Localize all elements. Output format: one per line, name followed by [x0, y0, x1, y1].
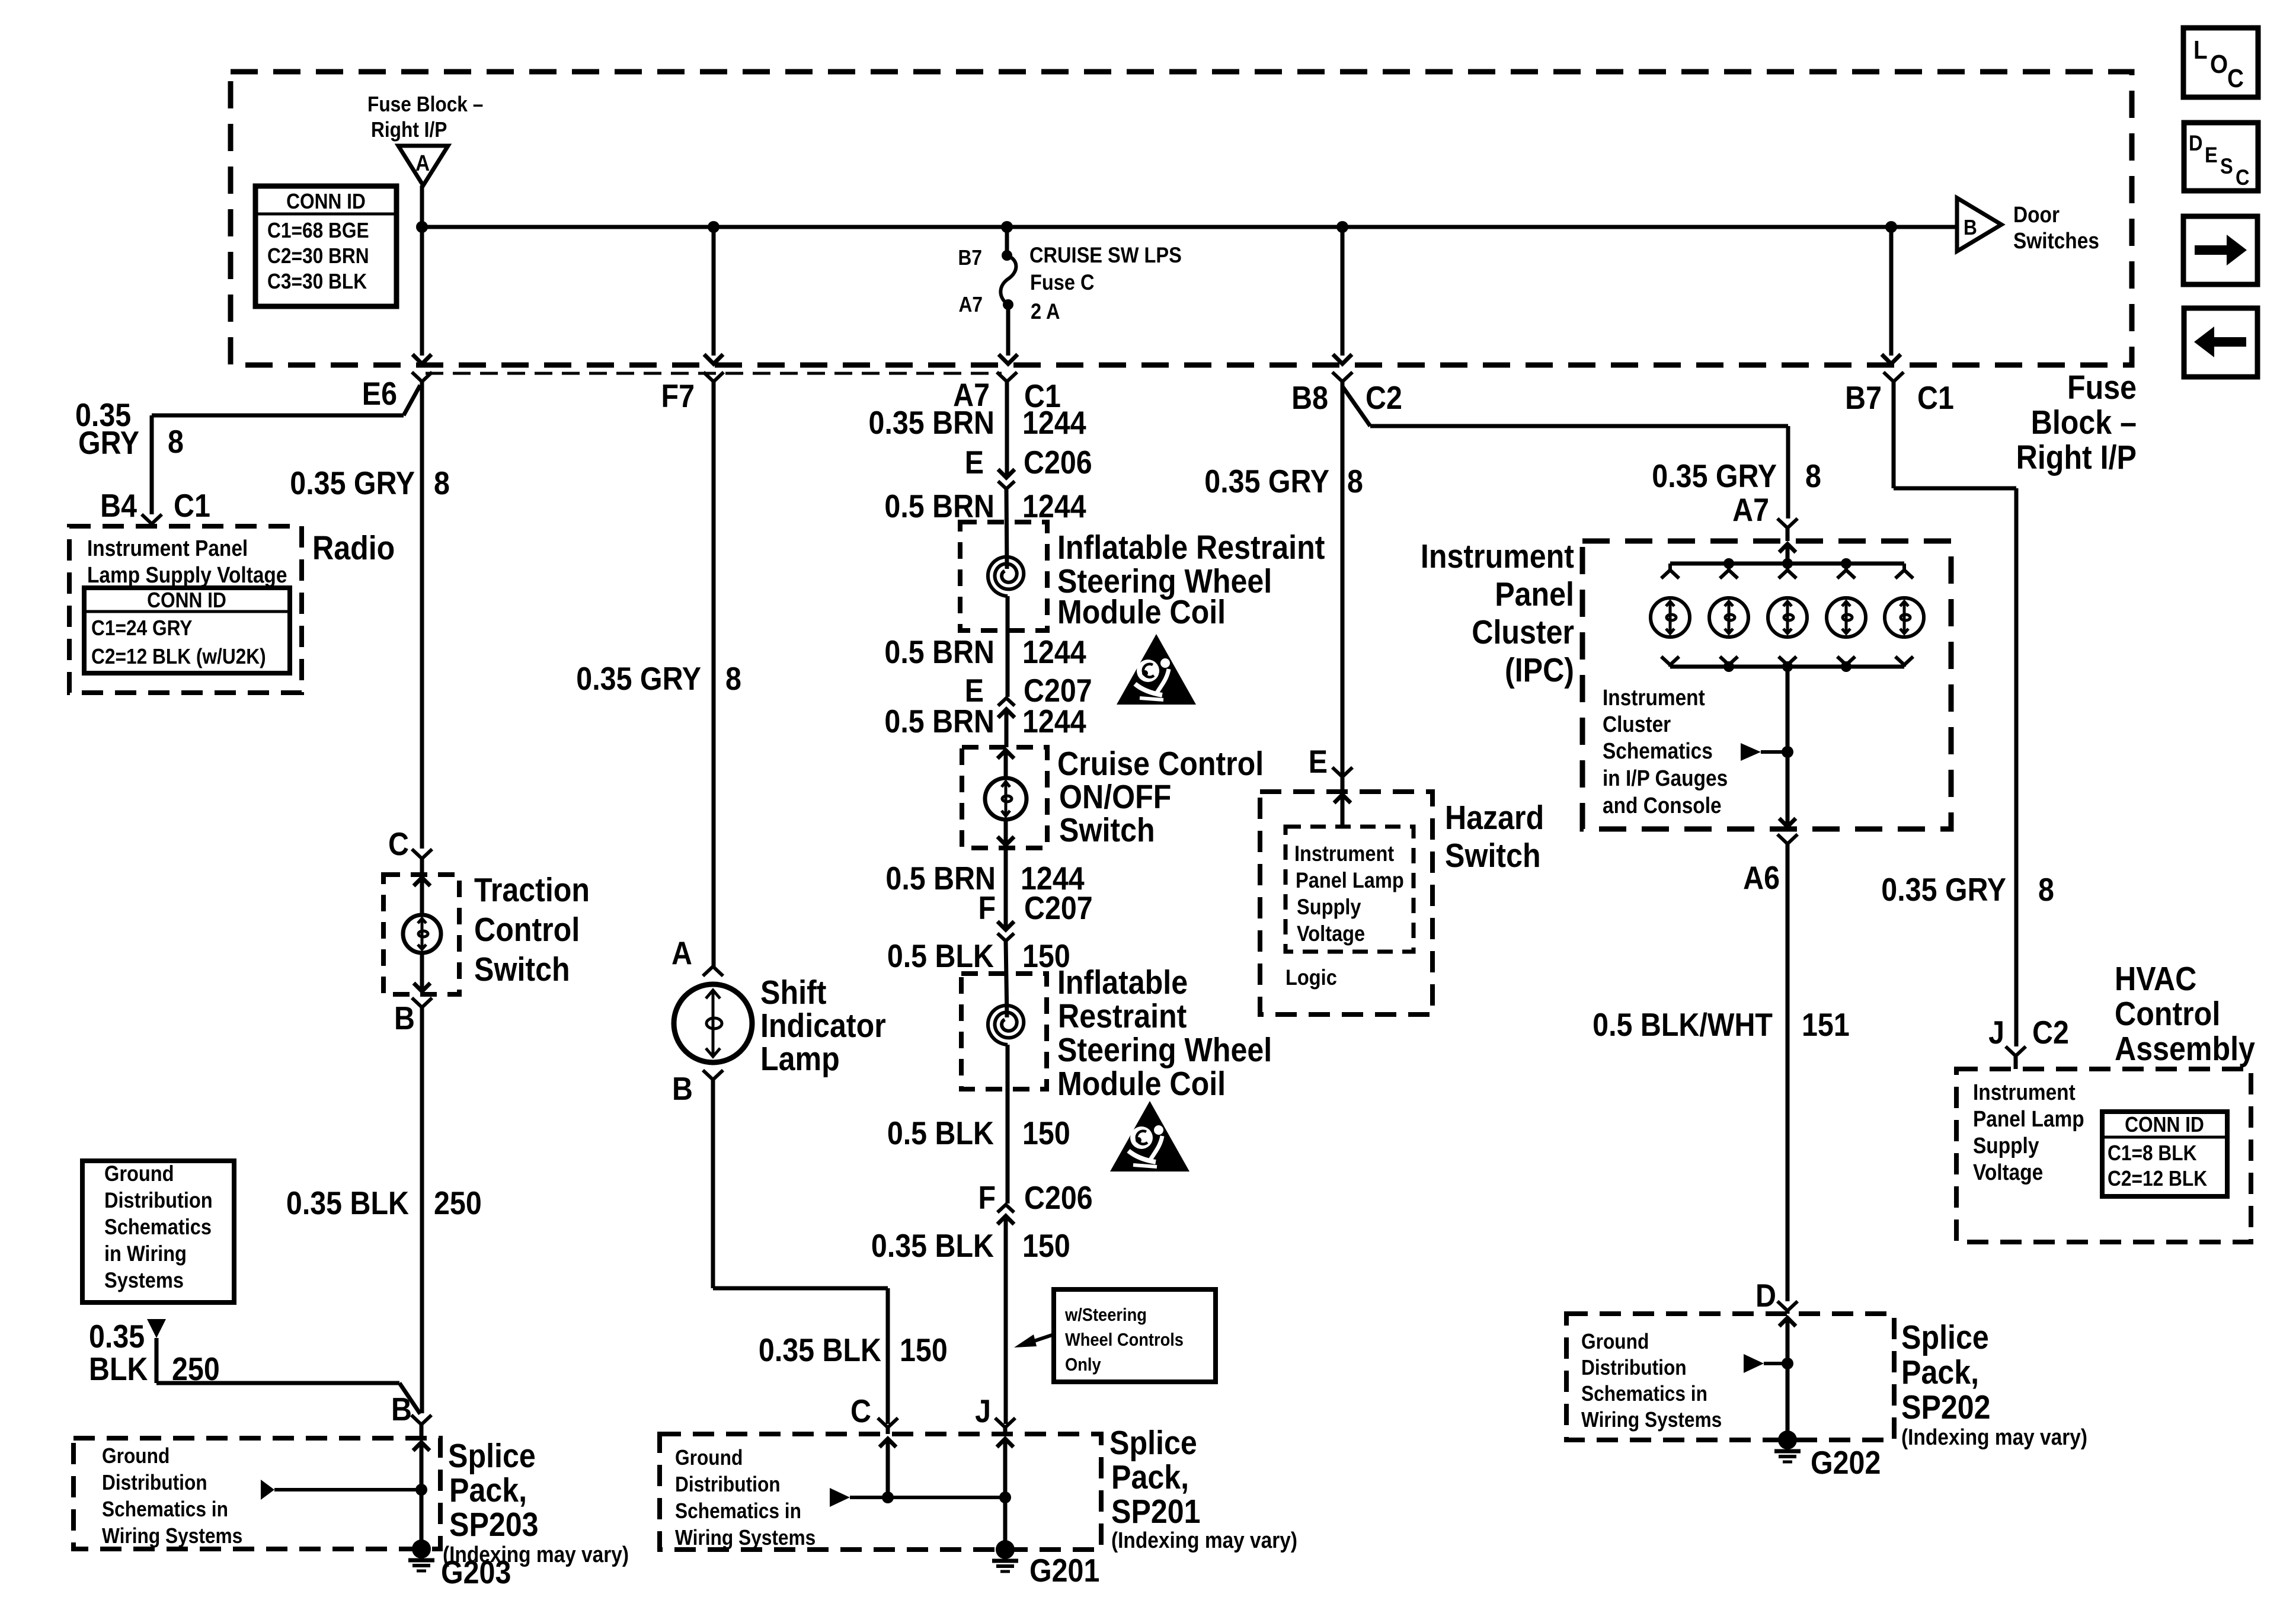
- svg-text:Switch: Switch: [474, 950, 570, 988]
- svg-text:C2: C2: [2032, 1014, 2069, 1051]
- svg-text:8: 8: [168, 423, 184, 460]
- wire traction B down to splice: [420, 1007, 424, 1413]
- svg-text:Control: Control: [474, 911, 580, 949]
- lamp traction control switch: [403, 915, 441, 953]
- svg-text:CONN ID: CONN ID: [286, 190, 366, 213]
- CONN ID table (HVAC): [2102, 1112, 2227, 1196]
- svg-text:C1=8 BLK: C1=8 BLK: [2108, 1141, 2197, 1165]
- svg-text:0.35 GRY: 0.35 GRY: [1652, 457, 1777, 494]
- svg-text:Pack,: Pack,: [1111, 1458, 1189, 1496]
- svg-text:C1: C1: [1917, 379, 1954, 416]
- svg-text:(IPC): (IPC): [1505, 651, 1574, 689]
- in-line connector C206 F: [997, 1205, 1014, 1212]
- svg-text:0.35 BRN: 0.35 BRN: [869, 404, 994, 441]
- splice pack SP201 dashed box: [660, 1434, 1101, 1550]
- svg-text:Voltage: Voltage: [1973, 1160, 2043, 1185]
- wire B8 down to hazard: [1341, 382, 1345, 777]
- IPC lamp 5: [1902, 564, 1906, 570]
- svg-text:1244: 1244: [1022, 488, 1086, 524]
- svg-text:C2: C2: [1366, 379, 1402, 416]
- wire SP203 to ground: [420, 1490, 424, 1541]
- svg-text:Ground: Ground: [675, 1446, 743, 1470]
- fuse CRUISE SW LPS Fuse C 2A: [1005, 227, 1009, 255]
- svg-text:Traction: Traction: [474, 871, 590, 909]
- IPC lamp 4: [1844, 564, 1848, 570]
- wire bus drop to B7 with arrow: [1889, 227, 1894, 356]
- node junction F7: [708, 221, 720, 233]
- wire A7 down: [1005, 382, 1009, 476]
- svg-text:S: S: [2220, 154, 2233, 178]
- node junction B8: [1336, 221, 1348, 233]
- node junction B7: [1885, 221, 1897, 233]
- splice SP203 branch arrow: [261, 1480, 274, 1500]
- node IPC bus bottom: [1723, 661, 1734, 672]
- in-line connector C207 F: [997, 921, 1014, 930]
- wire radio branch horizontal: [152, 414, 404, 418]
- splice SP201 entry arrow J: [997, 1439, 1013, 1447]
- svg-text:C: C: [850, 1393, 871, 1429]
- svg-text:Cluster: Cluster: [1472, 613, 1574, 651]
- splice SP202 entry arrow: [1779, 1318, 1796, 1326]
- svg-text:Systems: Systems: [104, 1268, 184, 1292]
- lamp cruise control switch: [985, 778, 1027, 820]
- IPC entry arrow: [1779, 544, 1796, 552]
- coil inflatable restraint steering wheel module (2): [988, 1006, 1024, 1045]
- svg-text:C: C: [2236, 165, 2250, 190]
- svg-text:Panel Lamp: Panel Lamp: [1973, 1106, 2084, 1131]
- connector C (traction): [412, 849, 432, 859]
- wire F7 down to shift lamp: [712, 382, 716, 966]
- svg-text:w/Steering: w/Steering: [1064, 1305, 1147, 1325]
- wire radio branch diagonal: [404, 385, 420, 415]
- svg-text:Wiring Systems: Wiring Systems: [675, 1526, 816, 1550]
- svg-text:Instrument: Instrument: [1294, 841, 1395, 866]
- wire A6 down to SP202 D: [1786, 844, 1790, 1301]
- wire SP202 to ground: [1786, 1363, 1790, 1432]
- connector A (shift lamp): [703, 966, 723, 976]
- svg-text:B: B: [672, 1070, 693, 1107]
- wire E6 down to traction switch: [420, 382, 424, 849]
- svg-text:E6: E6: [362, 375, 397, 412]
- connector B7 C1: [1884, 372, 1904, 382]
- svg-text:Module Coil: Module Coil: [1057, 593, 1226, 631]
- node splice SP201 J: [999, 1491, 1011, 1503]
- svg-text:E: E: [965, 444, 984, 481]
- svg-text:8: 8: [1805, 457, 1821, 494]
- harness connector line C1 (thin dashed): [426, 372, 1002, 375]
- wire bus drop to B8 with arrow: [1341, 227, 1345, 356]
- node IPC bus bottom: [1841, 661, 1851, 672]
- wire B7 horizontal: [1894, 486, 2016, 491]
- svg-text:Supply: Supply: [1973, 1133, 2039, 1158]
- svg-text:1244: 1244: [1022, 633, 1086, 670]
- hazard logic dashed box: [1285, 827, 1414, 952]
- svg-text:8: 8: [1347, 463, 1363, 500]
- wire coil1 exit: [1006, 596, 1010, 697]
- connector B (splice SP203): [411, 1415, 431, 1425]
- svg-text:C: C: [388, 825, 409, 862]
- svg-text:Lamp Supply Voltage: Lamp Supply Voltage: [87, 562, 287, 587]
- DESC legend box: [2184, 123, 2258, 191]
- svg-text:in I/P Gauges: in I/P Gauges: [1603, 766, 1728, 790]
- wire triangle A to bus: [420, 185, 424, 227]
- previous-page arrow box: [2184, 308, 2257, 377]
- bus wire from fuse to door switches: [422, 225, 1956, 229]
- svg-text:B4: B4: [100, 487, 137, 524]
- svg-text:C1=68 BGE: C1=68 BGE: [267, 219, 369, 242]
- triangle connector A: [398, 146, 448, 185]
- connector B4 C1 (radio): [142, 514, 162, 524]
- svg-text:E: E: [1309, 743, 1328, 780]
- svg-text:Ground: Ground: [102, 1444, 170, 1468]
- svg-text:Switch: Switch: [1445, 837, 1541, 875]
- svg-text:Hazard: Hazard: [1445, 799, 1544, 837]
- svg-text:Wiring Systems: Wiring Systems: [102, 1524, 242, 1548]
- svg-text:250: 250: [434, 1185, 482, 1221]
- svg-text:J: J: [1988, 1014, 2004, 1051]
- svg-text:SP203: SP203: [449, 1506, 539, 1544]
- svg-text:Door: Door: [2013, 202, 2060, 227]
- svg-text:C1=24 GRY: C1=24 GRY: [91, 616, 193, 640]
- svg-text:A: A: [415, 151, 430, 175]
- svg-text:Distribution: Distribution: [104, 1188, 213, 1212]
- in-line connector C207 E: [998, 698, 1015, 706]
- svg-text:0.35 BLK: 0.35 BLK: [286, 1185, 409, 1221]
- svg-text:Steering Wheel: Steering Wheel: [1057, 1031, 1272, 1069]
- node IPC bus top: [1841, 558, 1851, 569]
- instrument panel cluster dashed box: [1582, 541, 1951, 829]
- svg-text:O: O: [2210, 49, 2228, 79]
- wire C206 F down to splice J: [1004, 1216, 1008, 1424]
- svg-text:in Wiring: in Wiring: [104, 1241, 187, 1266]
- node bus junction A: [416, 221, 428, 233]
- svg-text:0.35 BLK: 0.35 BLK: [759, 1331, 881, 1368]
- wire shift B down to splice C: [886, 1288, 890, 1424]
- svg-text:Instrument: Instrument: [1973, 1080, 2076, 1105]
- svg-text:1244: 1244: [1022, 703, 1086, 740]
- w/Steering Wheel Controls Only note box: [1054, 1289, 1216, 1382]
- svg-text:Distribution: Distribution: [1581, 1356, 1687, 1379]
- svg-text:Lamp: Lamp: [760, 1040, 840, 1078]
- connector D (splice SP202): [1777, 1301, 1798, 1311]
- wire pennant diagonal to B: [399, 1383, 420, 1414]
- svg-text:Cluster: Cluster: [1603, 712, 1671, 737]
- splice SP203 entry arrow: [413, 1442, 430, 1451]
- wire pennant down: [155, 1338, 159, 1383]
- svg-text:B7: B7: [958, 246, 982, 270]
- node junction fuse C: [1001, 221, 1013, 233]
- svg-text:0.35 BLK: 0.35 BLK: [871, 1227, 994, 1264]
- svg-text:Control: Control: [2115, 995, 2220, 1033]
- wire radio branch down: [150, 415, 154, 514]
- traction switch arrow bottom: [420, 953, 424, 991]
- svg-text:F: F: [978, 1179, 996, 1216]
- svg-text:8: 8: [434, 465, 450, 501]
- triangle connector B to door switches: [1957, 198, 2001, 251]
- ground G202: [1778, 1430, 1797, 1449]
- note arrow to wire: [1029, 1334, 1054, 1343]
- svg-text:Radio: Radio: [312, 529, 395, 567]
- svg-text:Shift: Shift: [760, 974, 827, 1012]
- svg-text:B: B: [394, 1000, 415, 1036]
- svg-text:0.35 GRY: 0.35 GRY: [576, 660, 701, 697]
- IPC lamp 3: [1786, 564, 1789, 570]
- svg-text:(Indexing may vary): (Indexing may vary): [443, 1542, 629, 1567]
- in-line connector C206 E: [998, 469, 1015, 478]
- ground distribution schematics solid box (left): [82, 1161, 234, 1302]
- svg-text:0.5 BLK: 0.5 BLK: [887, 937, 994, 974]
- svg-text:Panel Lamp: Panel Lamp: [1296, 868, 1404, 892]
- wire bus drop to E6 with arrow: [420, 227, 424, 356]
- cruise switch arrow top: [1004, 750, 1008, 778]
- svg-text:SP201: SP201: [1111, 1493, 1201, 1531]
- svg-text:Ground: Ground: [104, 1161, 174, 1186]
- svg-text:C: C: [2227, 63, 2244, 93]
- node IPC bus top: [1723, 558, 1734, 569]
- CONN ID table (fuse block): [255, 186, 396, 306]
- connector B8 C2: [1332, 372, 1352, 382]
- svg-text:Splice: Splice: [1901, 1318, 1989, 1356]
- coil dashed box (1): [960, 522, 1047, 630]
- connector J C2 (HVAC): [2006, 1046, 2026, 1056]
- svg-text:Distribution: Distribution: [675, 1473, 781, 1496]
- wire bus drop to F7 with arrow: [712, 227, 716, 356]
- svg-text:D: D: [1755, 1277, 1776, 1314]
- IPC exit arrow: [1779, 818, 1796, 827]
- svg-text:B: B: [1964, 216, 1977, 239]
- svg-text:Inflatable Restraint: Inflatable Restraint: [1057, 529, 1325, 566]
- splice SP202 branch arrow: [1744, 1354, 1764, 1373]
- svg-text:Instrument: Instrument: [1603, 685, 1705, 710]
- svg-text:Voltage: Voltage: [1297, 921, 1365, 946]
- connector A6 (IPC): [1777, 834, 1798, 844]
- svg-text:Instrument: Instrument: [1421, 537, 1574, 575]
- radio dashed box: [69, 526, 302, 693]
- svg-text:C1: C1: [174, 487, 210, 524]
- svg-text:(Indexing may vary): (Indexing may vary): [1111, 1528, 1297, 1553]
- cruise control ON/OFF switch dashed box: [962, 747, 1047, 848]
- svg-text:0.35 GRY: 0.35 GRY: [1881, 871, 2006, 908]
- svg-text:CONN ID: CONN ID: [147, 588, 226, 612]
- wire coil2 exit: [1006, 1045, 1010, 1204]
- svg-text:HVAC: HVAC: [2115, 960, 2196, 998]
- wire B7 down: [1892, 382, 1896, 488]
- wire shift lamp B down: [711, 1080, 715, 1288]
- svg-text:C2=12 BLK (w/U2K): C2=12 BLK (w/U2K): [91, 645, 266, 668]
- svg-text:CONN ID: CONN ID: [2125, 1113, 2204, 1137]
- svg-text:GRY: GRY: [78, 424, 139, 461]
- svg-text:BLK: BLK: [89, 1350, 148, 1387]
- connector A7 (IPC): [1777, 518, 1798, 528]
- svg-text:Only: Only: [1065, 1355, 1101, 1375]
- IPC schematics arrow: [1741, 743, 1761, 761]
- wire cruise to C207 F: [1004, 848, 1008, 930]
- svg-text:L: L: [2193, 35, 2208, 65]
- svg-text:Ground: Ground: [1581, 1330, 1649, 1353]
- fuse block Right I/P dashed box: [231, 72, 2132, 365]
- svg-text:Schematics: Schematics: [1603, 738, 1713, 763]
- svg-text:F: F: [978, 889, 996, 926]
- node IPC bus top: [1782, 558, 1793, 569]
- HVAC control assembly dashed box: [1956, 1069, 2251, 1242]
- svg-text:Inflatable: Inflatable: [1057, 964, 1188, 1001]
- svg-text:Splice: Splice: [1109, 1424, 1197, 1462]
- wire pennant horizontal: [156, 1381, 399, 1385]
- node IPC bus bottom: [1782, 661, 1793, 672]
- connector E (hazard): [1332, 767, 1352, 777]
- svg-text:Distribution: Distribution: [102, 1471, 207, 1494]
- svg-text:Schematics in: Schematics in: [675, 1499, 801, 1523]
- coil inflatable restraint steering wheel module (1): [988, 557, 1024, 596]
- svg-text:and Console: and Console: [1603, 793, 1722, 818]
- svg-text:(Indexing may vary): (Indexing may vary): [1901, 1425, 2087, 1449]
- svg-text:Block –: Block –: [2031, 404, 2137, 441]
- svg-text:2 A: 2 A: [1031, 299, 1060, 324]
- svg-text:0.35 GRY: 0.35 GRY: [290, 465, 415, 501]
- svg-text:CRUISE SW LPS: CRUISE SW LPS: [1029, 243, 1182, 267]
- svg-text:1244: 1244: [1022, 404, 1086, 441]
- pennant connector 0.35 BLK 250: [147, 1319, 166, 1338]
- svg-text:0.5 BRN: 0.5 BRN: [884, 633, 994, 670]
- wire IPC exit: [1786, 667, 1790, 827]
- svg-text:Pack,: Pack,: [1901, 1353, 1979, 1391]
- svg-text:151: 151: [1802, 1006, 1850, 1043]
- splice SP201 tie wire: [888, 1496, 1005, 1499]
- traction control switch dashed box: [383, 875, 459, 994]
- node splice SP202: [1782, 1358, 1793, 1369]
- connector A7 C1: [997, 372, 1017, 382]
- svg-text:Splice: Splice: [448, 1437, 536, 1475]
- node splice SP203: [415, 1484, 427, 1496]
- svg-text:Pack,: Pack,: [449, 1471, 527, 1509]
- svg-text:0.5 BRN: 0.5 BRN: [884, 703, 994, 740]
- next-page arrow box: [2183, 216, 2257, 284]
- svg-text:A6: A6: [1743, 859, 1780, 896]
- cruise switch arrow bottom: [1004, 820, 1008, 845]
- svg-text:0.5 BRN: 0.5 BRN: [884, 488, 994, 524]
- svg-text:SP202: SP202: [1901, 1388, 1991, 1426]
- svg-text:Panel: Panel: [1495, 575, 1574, 613]
- svg-text:Instrument Panel: Instrument Panel: [87, 536, 248, 561]
- svg-text:C206: C206: [1024, 1179, 1093, 1216]
- svg-text:Cruise Control: Cruise Control: [1057, 745, 1264, 783]
- svg-text:Fuse Block –: Fuse Block –: [367, 92, 483, 116]
- wire B8 branch diagonal: [1342, 386, 1370, 426]
- svg-text:C206: C206: [1024, 444, 1092, 481]
- svg-text:Supply: Supply: [1297, 895, 1361, 919]
- connector E6: [412, 372, 432, 382]
- caution triangle SRS (2): [1110, 1101, 1189, 1172]
- svg-text:Switch: Switch: [1059, 811, 1155, 849]
- coil dashed box (2): [961, 974, 1047, 1089]
- svg-text:G201: G201: [1029, 1552, 1099, 1589]
- connector C (splice SP201): [878, 1418, 898, 1427]
- svg-text:Fuse: Fuse: [2067, 369, 2137, 406]
- svg-text:Switches: Switches: [2013, 228, 2099, 253]
- svg-text:B8: B8: [1291, 379, 1328, 416]
- splice SP201 branch arrow: [830, 1488, 850, 1507]
- wire C207 F to coil 2: [1006, 941, 1007, 1017]
- connector J (splice SP201): [995, 1418, 1015, 1427]
- svg-text:Wheel Controls: Wheel Controls: [1065, 1330, 1184, 1350]
- hazard entry arrow: [1334, 795, 1351, 803]
- IPC lamp bus top: [1670, 562, 1904, 566]
- svg-text:D: D: [2189, 131, 2203, 155]
- svg-text:C2=30 BRN: C2=30 BRN: [267, 244, 369, 268]
- connector B (traction): [412, 998, 432, 1007]
- svg-text:Indicator: Indicator: [760, 1007, 886, 1045]
- svg-text:150: 150: [1022, 1227, 1070, 1264]
- wire B7 down to HVAC: [2014, 488, 2019, 1046]
- svg-text:F7: F7: [661, 377, 695, 414]
- wire C206 to coil box: [1006, 489, 1007, 569]
- svg-text:Right I/P: Right I/P: [371, 118, 447, 142]
- CONN ID table (radio): [84, 588, 290, 673]
- svg-text:C207: C207: [1024, 889, 1093, 926]
- traction switch arrow top: [420, 878, 424, 915]
- svg-text:B: B: [391, 1391, 412, 1427]
- svg-text:A7: A7: [1732, 491, 1769, 528]
- wire shift B horizontal: [713, 1286, 888, 1291]
- ground G203: [412, 1539, 431, 1558]
- wire IPC feed down: [1786, 426, 1790, 518]
- connector B (shift lamp): [703, 1070, 723, 1080]
- svg-text:0.5 BLK/WHT: 0.5 BLK/WHT: [1593, 1006, 1773, 1043]
- svg-text:8: 8: [2038, 871, 2054, 908]
- svg-text:E: E: [2205, 143, 2218, 167]
- connector F7: [703, 372, 724, 382]
- svg-text:0.5 BLK: 0.5 BLK: [887, 1115, 994, 1151]
- caution triangle SRS (1): [1117, 634, 1196, 705]
- svg-text:Assembly: Assembly: [2115, 1030, 2255, 1068]
- hazard switch dashed box: [1260, 792, 1432, 1014]
- splice SP201 entry arrow C: [880, 1439, 896, 1447]
- svg-text:ON/OFF: ON/OFF: [1059, 778, 1171, 816]
- svg-text:150: 150: [900, 1331, 948, 1368]
- splice pack SP202 dashed box: [1566, 1314, 1894, 1440]
- wire C207 to cruise switch: [1005, 709, 1009, 747]
- node IPC exit junction: [1782, 746, 1793, 758]
- wire SP201 to ground: [1003, 1497, 1008, 1541]
- svg-text:Module Coil: Module Coil: [1057, 1065, 1226, 1103]
- svg-text:Restraint: Restraint: [1058, 997, 1187, 1035]
- svg-text:Schematics: Schematics: [104, 1215, 212, 1239]
- splice pack SP203 dashed box: [73, 1438, 440, 1549]
- lamp shift indicator: [674, 984, 752, 1062]
- svg-text:A7: A7: [959, 293, 983, 316]
- IPC lamp bus bottom: [1670, 665, 1904, 669]
- svg-text:8: 8: [725, 660, 741, 697]
- svg-text:Schematics in: Schematics in: [102, 1497, 228, 1521]
- svg-text:Schematics in: Schematics in: [1581, 1382, 1707, 1406]
- svg-text:Right I/P: Right I/P: [2016, 438, 2137, 476]
- svg-text:0.35: 0.35: [89, 1318, 145, 1355]
- wire B8 branch horizontal to IPC: [1370, 424, 1788, 428]
- LOC legend box: [2183, 28, 2258, 97]
- svg-text:0.35 GRY: 0.35 GRY: [1204, 463, 1329, 500]
- svg-text:Wiring Systems: Wiring Systems: [1581, 1408, 1722, 1432]
- svg-text:G202: G202: [1811, 1444, 1881, 1481]
- svg-text:Logic: Logic: [1285, 965, 1337, 990]
- IPC lamp 2: [1727, 564, 1731, 570]
- node splice SP201 C: [882, 1491, 894, 1503]
- svg-text:Fuse C: Fuse C: [1030, 270, 1095, 295]
- svg-text:A: A: [671, 934, 692, 971]
- svg-text:150: 150: [1022, 1115, 1070, 1151]
- svg-text:C3=30 BLK: C3=30 BLK: [267, 270, 367, 293]
- svg-text:B7: B7: [1845, 379, 1882, 416]
- ground G201: [996, 1540, 1015, 1559]
